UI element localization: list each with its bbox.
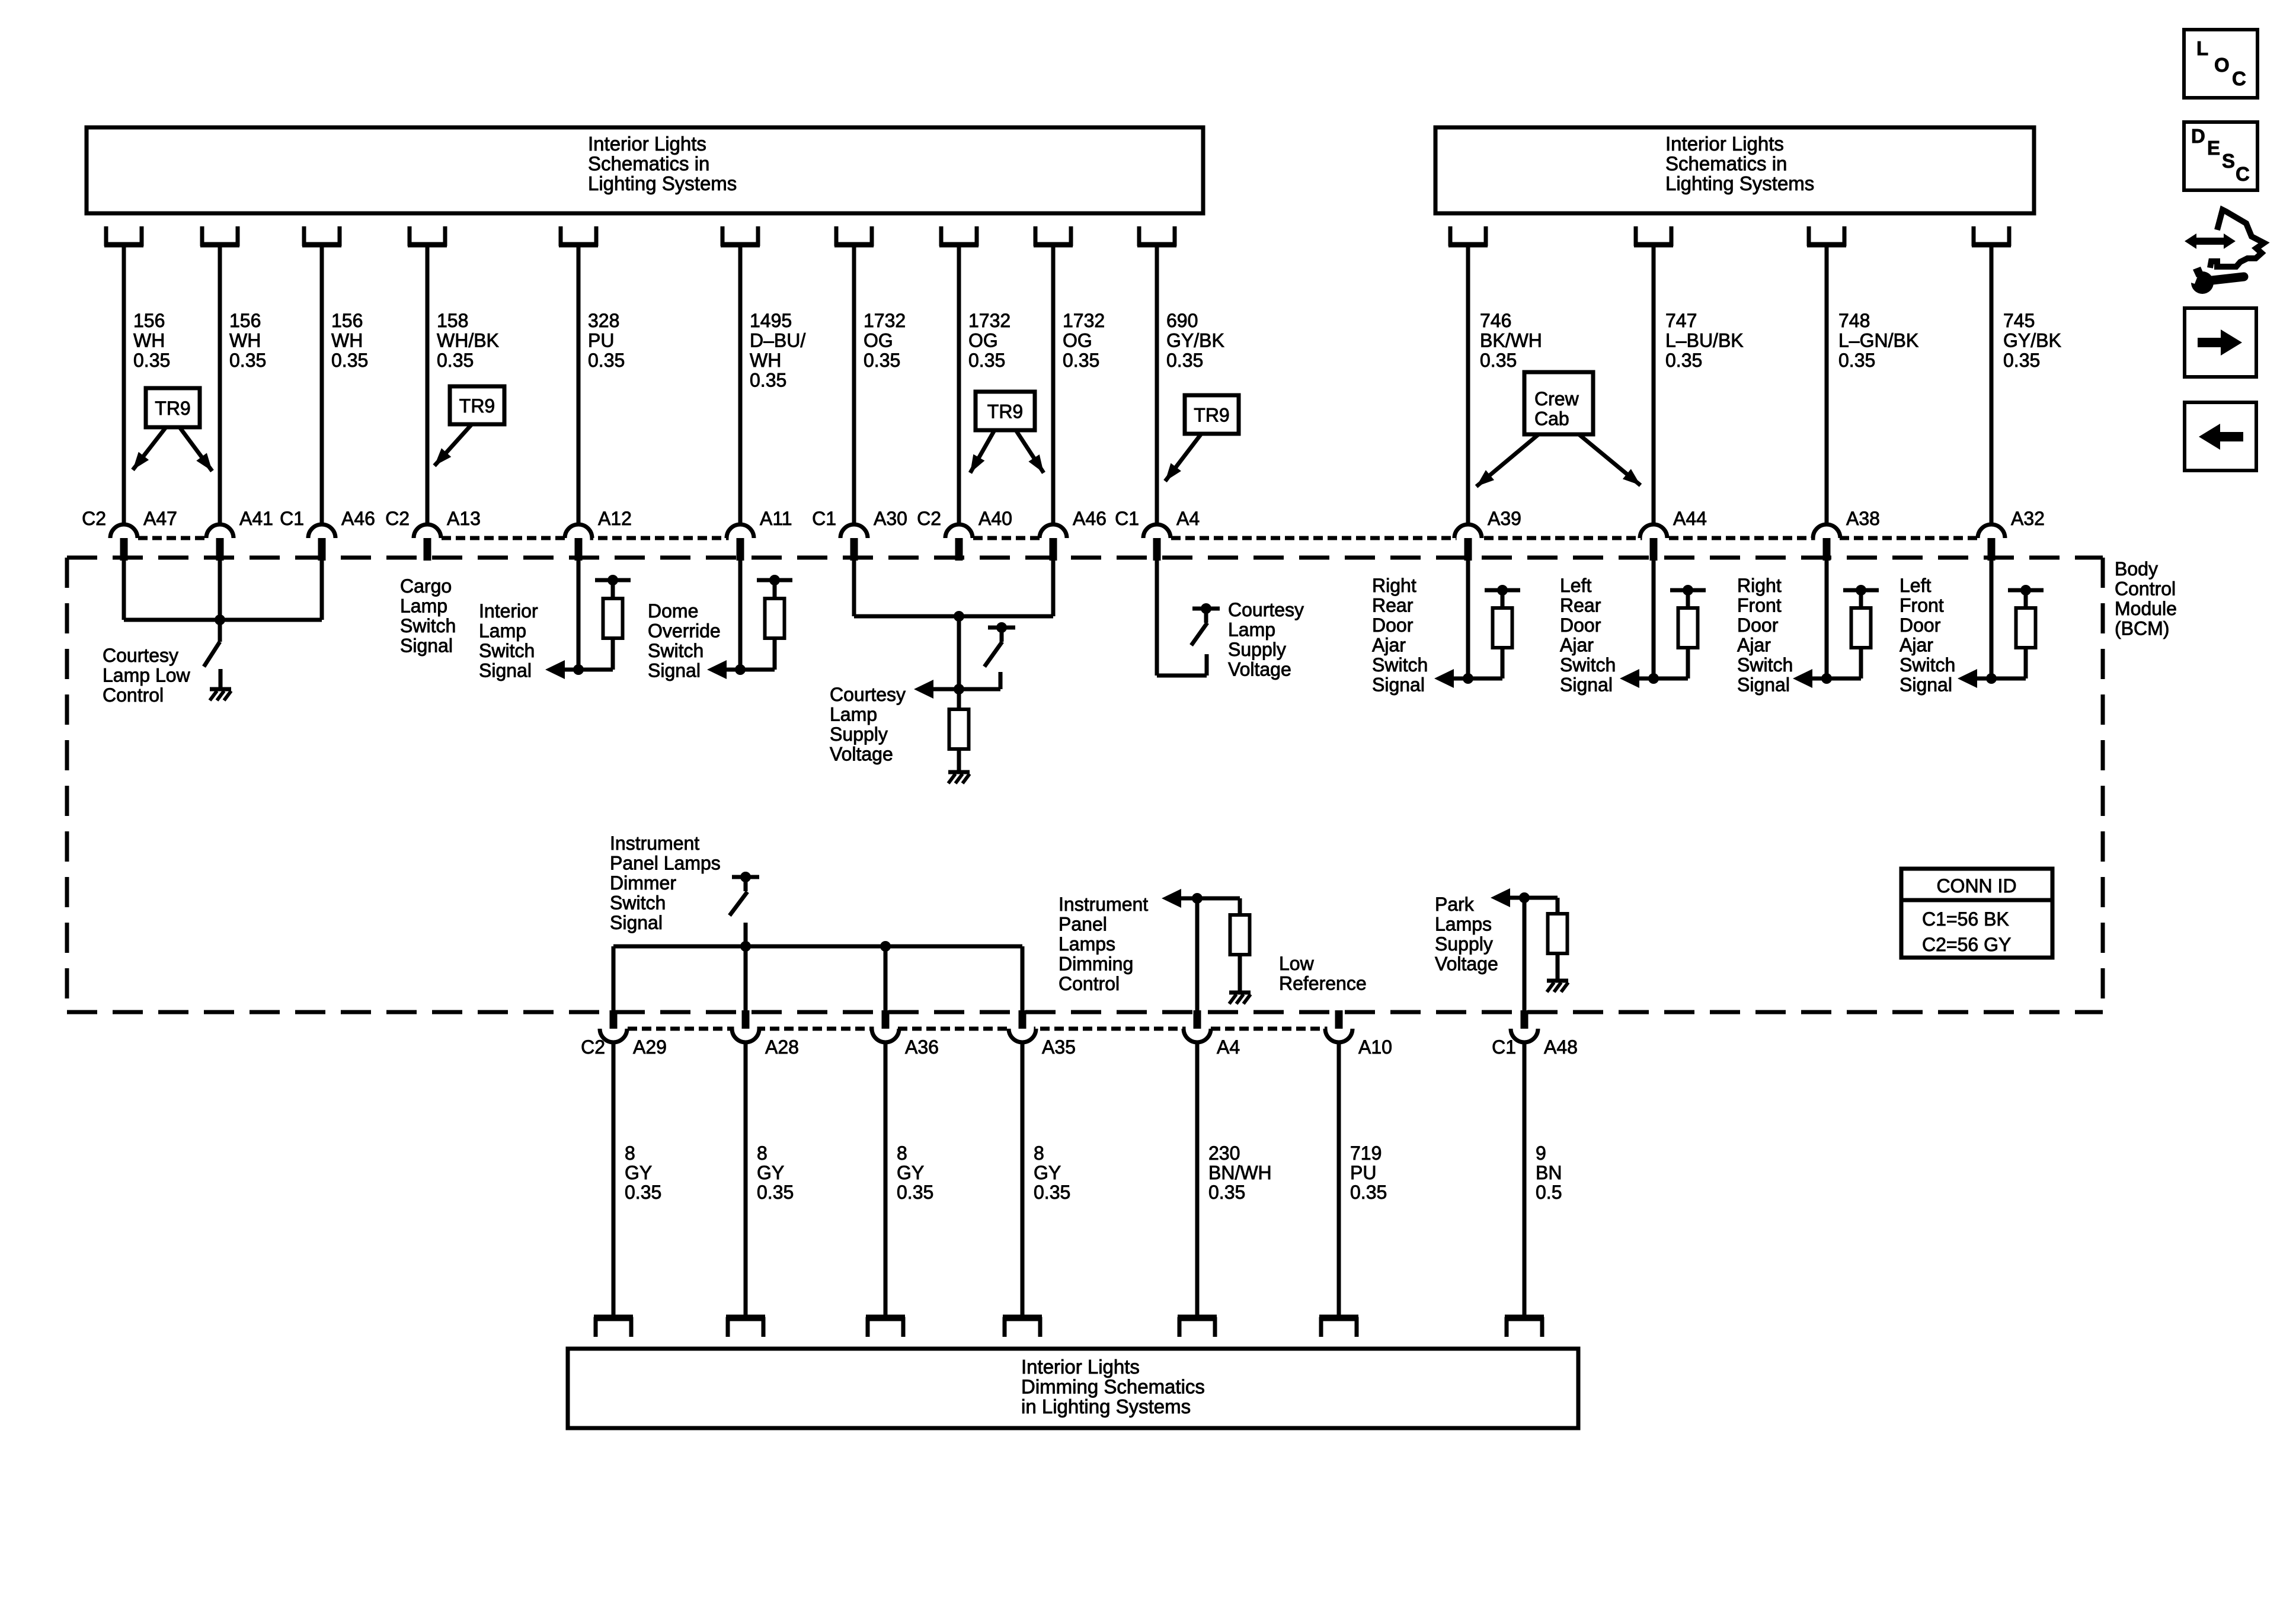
svg-text:Supply: Supply [1435, 933, 1493, 955]
svg-text:Courtesy: Courtesy [830, 684, 906, 705]
svg-text:A38: A38 [1846, 508, 1880, 529]
svg-text:in Lighting Systems: in Lighting Systems [1021, 1395, 1191, 1417]
svg-text:A48: A48 [1544, 1036, 1578, 1058]
svg-text:Courtesy: Courtesy [1228, 599, 1304, 620]
svg-text:Supply: Supply [1228, 639, 1286, 660]
svg-text:Signal: Signal [1372, 674, 1425, 696]
svg-text:0.35: 0.35 [968, 350, 1005, 371]
svg-text:Switch: Switch [1372, 654, 1428, 676]
svg-text:Door: Door [1737, 614, 1779, 636]
svg-text:GY/BK: GY/BK [2003, 330, 2061, 351]
svg-text:745: 745 [2003, 310, 2035, 331]
svg-text:0.35: 0.35 [897, 1182, 933, 1203]
svg-text:Switch: Switch [400, 615, 456, 636]
svg-text:156: 156 [229, 310, 261, 331]
svg-text:Lighting Systems: Lighting Systems [588, 172, 737, 194]
svg-text:747: 747 [1665, 310, 1697, 331]
svg-text:WH: WH [133, 330, 165, 351]
svg-text:GY/BK: GY/BK [1166, 330, 1224, 351]
svg-text:746: 746 [1480, 310, 1511, 331]
svg-text:Dome: Dome [648, 600, 698, 622]
svg-text:Panel: Panel [1059, 914, 1107, 935]
svg-text:GY: GY [1034, 1162, 1061, 1183]
svg-text:TR9: TR9 [459, 395, 495, 417]
svg-text:Schematics in: Schematics in [588, 153, 709, 175]
svg-text:Door: Door [1560, 614, 1601, 636]
svg-text:WH/BK: WH/BK [437, 330, 499, 351]
svg-text:A39: A39 [1488, 508, 1521, 529]
svg-text:0.35: 0.35 [625, 1182, 661, 1203]
svg-text:Instrument: Instrument [1059, 894, 1148, 915]
svg-text:Switch: Switch [648, 640, 703, 661]
svg-text:156: 156 [331, 310, 363, 331]
svg-text:Signal: Signal [1900, 674, 1952, 696]
svg-text:8: 8 [897, 1142, 907, 1164]
svg-text:Interior: Interior [479, 600, 538, 622]
svg-text:OG: OG [1063, 330, 1092, 351]
svg-text:A11: A11 [760, 508, 792, 529]
svg-text:0.35: 0.35 [1063, 350, 1099, 371]
svg-text:Door: Door [1900, 614, 1941, 636]
svg-text:TR9: TR9 [1194, 405, 1229, 426]
svg-text:Instrument: Instrument [610, 833, 699, 854]
svg-text:D: D [2191, 125, 2205, 147]
svg-text:Voltage: Voltage [1435, 953, 1498, 975]
svg-text:CONN ID: CONN ID [1936, 875, 2016, 897]
svg-text:Right: Right [1737, 575, 1782, 596]
svg-text:A47: A47 [143, 508, 177, 529]
svg-text:C1: C1 [280, 508, 304, 529]
svg-text:A10: A10 [1358, 1036, 1392, 1058]
svg-text:C: C [2236, 163, 2250, 185]
svg-text:Control: Control [103, 684, 164, 706]
svg-text:0.35: 0.35 [757, 1182, 794, 1203]
svg-text:Front: Front [1737, 595, 1782, 616]
svg-text:A28: A28 [765, 1036, 799, 1058]
svg-text:Cab: Cab [1534, 408, 1569, 430]
svg-text:A41: A41 [239, 508, 273, 529]
svg-text:A29: A29 [633, 1036, 667, 1058]
svg-text:A46: A46 [1073, 508, 1107, 529]
svg-text:Voltage: Voltage [1228, 659, 1291, 680]
svg-text:158: 158 [437, 310, 468, 331]
svg-text:Schematics in: Schematics in [1665, 153, 1787, 175]
svg-text:WH: WH [750, 350, 781, 371]
svg-text:Lamp: Lamp [830, 704, 877, 725]
svg-text:Control: Control [1059, 973, 1120, 994]
svg-text:Lighting Systems: Lighting Systems [1665, 172, 1814, 194]
svg-text:A4: A4 [1217, 1036, 1240, 1058]
svg-text:328: 328 [588, 310, 619, 331]
svg-text:WH: WH [331, 330, 363, 351]
svg-text:0.35: 0.35 [1480, 350, 1517, 371]
svg-text:156: 156 [133, 310, 165, 331]
svg-text:Switch: Switch [1737, 654, 1793, 676]
svg-text:BN/WH: BN/WH [1208, 1162, 1272, 1183]
svg-text:Rear: Rear [1372, 595, 1414, 616]
svg-text:Ajar: Ajar [1900, 635, 1933, 656]
svg-text:Override: Override [648, 620, 721, 642]
svg-text:O: O [2214, 54, 2230, 76]
svg-text:A13: A13 [447, 508, 481, 529]
svg-text:TR9: TR9 [987, 401, 1023, 422]
svg-text:TR9: TR9 [155, 398, 190, 419]
svg-text:Left: Left [1560, 575, 1591, 596]
svg-text:Dimming Schematics: Dimming Schematics [1021, 1376, 1205, 1398]
svg-text:C1=56 BK: C1=56 BK [1922, 908, 2009, 930]
svg-text:Body: Body [2115, 558, 2158, 580]
svg-text:A12: A12 [598, 508, 632, 529]
svg-text:1732: 1732 [864, 310, 906, 331]
svg-text:Switch: Switch [610, 892, 666, 914]
svg-text:L–GN/BK: L–GN/BK [1838, 330, 1918, 351]
svg-text:Interior Lights: Interior Lights [588, 133, 706, 155]
svg-text:A44: A44 [1673, 508, 1707, 529]
svg-text:C2: C2 [82, 508, 106, 529]
svg-text:D–BU/: D–BU/ [750, 330, 805, 351]
svg-text:690: 690 [1166, 310, 1198, 331]
svg-text:8: 8 [625, 1142, 635, 1164]
svg-text:Ajar: Ajar [1372, 635, 1406, 656]
svg-text:Low: Low [1279, 953, 1315, 974]
svg-text:S: S [2222, 150, 2235, 172]
svg-text:Lamp: Lamp [1228, 619, 1275, 641]
svg-text:Courtesy: Courtesy [103, 645, 178, 666]
svg-text:A32: A32 [2011, 508, 2045, 529]
svg-text:Voltage: Voltage [830, 744, 893, 765]
svg-text:0.35: 0.35 [1166, 350, 1203, 371]
svg-text:C1: C1 [812, 508, 836, 529]
svg-text:A4: A4 [1176, 508, 1200, 529]
svg-text:OG: OG [968, 330, 998, 351]
svg-text:PU: PU [588, 330, 614, 351]
svg-text:0.35: 0.35 [750, 370, 786, 391]
svg-text:Door: Door [1372, 614, 1414, 636]
svg-text:C1: C1 [1115, 508, 1139, 529]
svg-text:0.35: 0.35 [1665, 350, 1702, 371]
svg-text:Ajar: Ajar [1560, 635, 1594, 656]
svg-text:Interior Lights: Interior Lights [1021, 1356, 1140, 1378]
svg-text:Signal: Signal [1737, 674, 1790, 696]
svg-text:BK/WH: BK/WH [1480, 330, 1542, 351]
svg-text:8: 8 [757, 1142, 768, 1164]
svg-text:C: C [2232, 68, 2246, 89]
svg-text:E: E [2207, 137, 2220, 159]
svg-text:0.35: 0.35 [437, 350, 474, 371]
svg-text:Lamp Low: Lamp Low [103, 665, 191, 686]
svg-text:A40: A40 [978, 508, 1012, 529]
svg-text:C2: C2 [581, 1036, 605, 1058]
svg-text:0.35: 0.35 [1350, 1182, 1387, 1203]
svg-text:1732: 1732 [968, 310, 1011, 331]
svg-text:719: 719 [1350, 1142, 1382, 1164]
svg-text:Switch: Switch [1560, 654, 1616, 676]
svg-text:Switch: Switch [1900, 654, 1955, 676]
svg-text:Signal: Signal [400, 635, 453, 657]
svg-text:Front: Front [1900, 595, 1944, 616]
svg-text:0.35: 0.35 [133, 350, 170, 371]
svg-text:Signal: Signal [610, 912, 663, 933]
svg-text:9: 9 [1536, 1142, 1546, 1164]
svg-text:Reference: Reference [1279, 973, 1367, 994]
svg-text:0.35: 0.35 [1838, 350, 1875, 371]
svg-text:C2: C2 [385, 508, 410, 529]
svg-text:Switch: Switch [479, 640, 535, 661]
svg-text:WH: WH [229, 330, 261, 351]
svg-text:0.5: 0.5 [1536, 1182, 1562, 1203]
svg-text:Ajar: Ajar [1737, 635, 1771, 656]
svg-text:1495: 1495 [750, 310, 792, 331]
svg-text:C2: C2 [917, 508, 941, 529]
svg-text:Panel Lamps: Panel Lamps [610, 853, 721, 874]
svg-text:C1: C1 [1492, 1036, 1516, 1058]
svg-text:Signal: Signal [1560, 674, 1613, 696]
svg-text:0.35: 0.35 [1208, 1182, 1245, 1203]
svg-text:Lamp: Lamp [400, 596, 447, 617]
svg-text:Right: Right [1372, 575, 1416, 596]
svg-text:GY: GY [625, 1162, 652, 1183]
svg-text:Signal: Signal [479, 660, 532, 681]
svg-text:Dimming: Dimming [1059, 953, 1133, 975]
svg-text:Left: Left [1900, 575, 1931, 596]
svg-text:Crew: Crew [1534, 388, 1579, 409]
svg-text:L: L [2196, 37, 2208, 59]
svg-text:748: 748 [1838, 310, 1870, 331]
svg-text:Lamps: Lamps [1059, 933, 1115, 955]
svg-text:0.35: 0.35 [864, 350, 900, 371]
svg-text:Supply: Supply [830, 724, 888, 745]
svg-text:A36: A36 [905, 1036, 939, 1058]
svg-text:1732: 1732 [1063, 310, 1105, 331]
svg-text:Control: Control [2115, 578, 2176, 600]
svg-text:8: 8 [1034, 1142, 1044, 1164]
svg-text:A35: A35 [1042, 1036, 1076, 1058]
svg-text:A30: A30 [874, 508, 907, 529]
svg-text:OG: OG [864, 330, 893, 351]
svg-text:(BCM): (BCM) [2115, 618, 2169, 639]
svg-text:0.35: 0.35 [2003, 350, 2040, 371]
svg-text:0.35: 0.35 [331, 350, 368, 371]
svg-text:Lamps: Lamps [1435, 914, 1492, 935]
svg-text:0.35: 0.35 [1034, 1182, 1070, 1203]
svg-text:C2=56 GY: C2=56 GY [1922, 934, 2011, 955]
svg-text:BN: BN [1536, 1162, 1562, 1183]
svg-text:GY: GY [897, 1162, 924, 1183]
svg-text:0.35: 0.35 [588, 350, 625, 371]
svg-text:L–BU/BK: L–BU/BK [1665, 330, 1744, 351]
svg-text:Dimmer: Dimmer [610, 872, 676, 894]
svg-text:Cargo: Cargo [400, 575, 452, 597]
svg-text:Signal: Signal [648, 660, 701, 681]
svg-text:Module: Module [2115, 598, 2177, 619]
svg-text:230: 230 [1208, 1142, 1240, 1164]
svg-text:Park: Park [1435, 894, 1475, 915]
svg-text:Lamp: Lamp [479, 620, 526, 642]
svg-text:GY: GY [757, 1162, 784, 1183]
svg-text:Rear: Rear [1560, 595, 1601, 616]
svg-text:PU: PU [1350, 1162, 1376, 1183]
svg-text:Interior Lights: Interior Lights [1665, 133, 1784, 155]
svg-text:0.35: 0.35 [229, 350, 266, 371]
svg-text:A46: A46 [341, 508, 375, 529]
